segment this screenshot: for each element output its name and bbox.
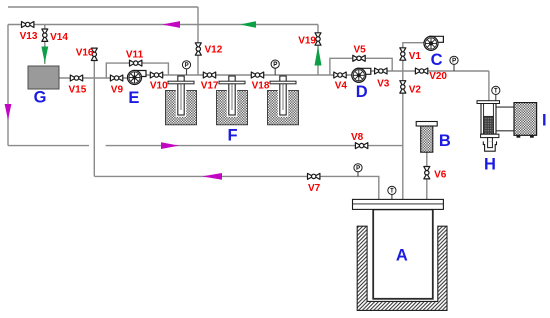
svg-text:V3: V3 [377,79,390,90]
svg-text:V13: V13 [20,31,38,42]
svg-text:C: C [431,51,443,69]
svg-text:V17: V17 [201,81,219,92]
svg-text:D: D [356,83,368,101]
svg-text:V7: V7 [308,183,321,194]
svg-text:V11: V11 [126,50,144,61]
svg-text:V15: V15 [69,85,87,96]
svg-text:V5: V5 [354,45,367,56]
svg-text:A: A [396,247,408,265]
svg-text:H: H [484,155,496,173]
svg-text:V12: V12 [205,45,223,56]
svg-text:B: B [439,132,451,150]
svg-text:V14: V14 [50,32,68,43]
svg-text:V1: V1 [409,51,422,62]
svg-text:V18: V18 [252,81,270,92]
svg-text:I: I [542,111,547,129]
svg-text:V6: V6 [434,169,447,180]
svg-text:V16: V16 [76,48,94,59]
svg-text:E: E [128,89,139,107]
svg-text:F: F [228,127,238,145]
svg-text:V4: V4 [335,81,348,92]
svg-text:V10: V10 [150,81,168,92]
svg-text:V20: V20 [429,71,447,82]
svg-text:G: G [34,88,47,106]
svg-text:V2: V2 [409,84,422,95]
svg-text:V8: V8 [351,132,364,143]
svg-text:V9: V9 [111,85,124,96]
svg-text:V19: V19 [298,35,316,46]
